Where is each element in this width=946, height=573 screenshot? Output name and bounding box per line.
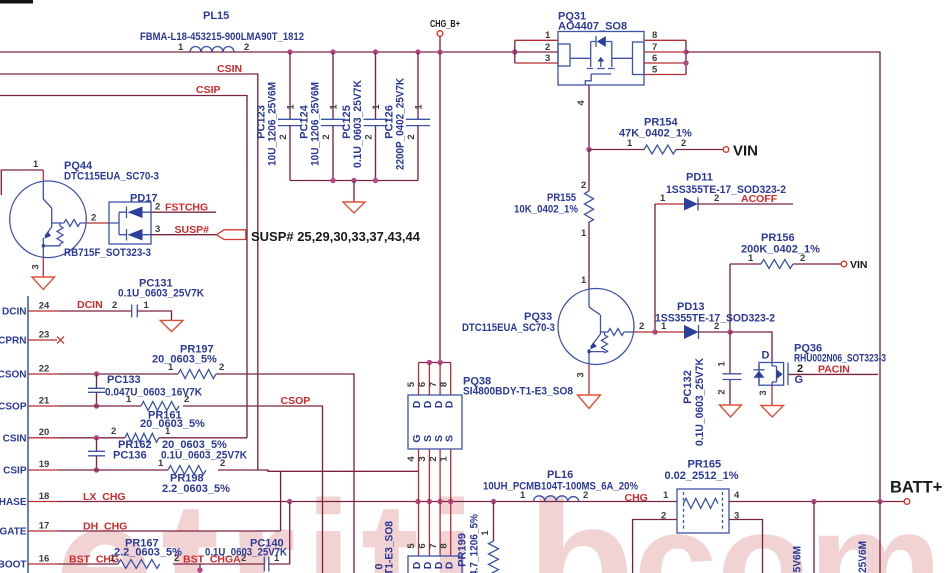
svg-text:CSIP: CSIP: [196, 84, 221, 96]
svg-text:2: 2: [278, 134, 289, 139]
node: junction at PR154: [586, 147, 591, 152]
svg-text:RB715F_SOT323-3: RB715F_SOT323-3: [64, 247, 151, 259]
svg-text:VIN: VIN: [733, 143, 758, 160]
watermark: [0, 475, 1, 477]
junction dots on top rail: [287, 49, 517, 54]
svg-text:1: 1: [329, 104, 340, 110]
svg-text:3: 3: [155, 224, 160, 235]
svg-text:6: 6: [417, 382, 428, 387]
IC body edge (left charger IC): [27, 296, 29, 573]
svg-text:CSIP: CSIP: [3, 466, 27, 477]
inductor PL16: [483, 469, 638, 502]
PQ38 pin names D D D D / G S S S: [411, 400, 456, 442]
svg-text:CHG_B+: CHG_B+: [430, 19, 460, 30]
junction dots on cap bottom rail: [330, 178, 335, 183]
svg-text:17: 17: [39, 521, 50, 532]
net FSTCHG: [151, 202, 216, 214]
ground (DCIN filter): [160, 320, 183, 331]
svg-text:PR156: PR156: [761, 232, 795, 244]
svg-text:2: 2: [219, 362, 224, 373]
net SUSP#: [151, 224, 217, 236]
capacitor (battery, clipped) left: [792, 502, 815, 573]
svg-text:1: 1: [274, 553, 280, 564]
svg-text:SUSP#: SUSP#: [175, 224, 210, 236]
capacitor PC140: [205, 502, 290, 572]
svg-text:10UH_PCMB104T-100MS_6A_20%: 10UH_PCMB104T-100MS_6A_20%: [483, 481, 638, 493]
svg-text:2: 2: [406, 134, 417, 139]
capacitor PC132: [682, 332, 742, 446]
capacitor PC124: [299, 52, 346, 181]
resistor PR162: [111, 426, 247, 451]
svg-text:1: 1: [168, 362, 174, 373]
wire CHG_B+ down to PQ38: [439, 52, 441, 363]
svg-text:1: 1: [520, 490, 526, 501]
svg-text:PD17: PD17: [130, 193, 158, 205]
svg-text:2: 2: [714, 321, 719, 332]
wire: PD11 anode down to PQ33 collector node: [654, 204, 656, 332]
svg-text:6: 6: [417, 543, 428, 548]
svg-text:20_0603_5%: 20_0603_5%: [152, 354, 217, 366]
svg-text:PC132: PC132: [682, 370, 694, 404]
svg-text:UGATE: UGATE: [0, 527, 27, 538]
svg-text:2200P_0402_25V7K: 2200P_0402_25V7K: [395, 78, 407, 170]
IC pin names: [0, 307, 27, 571]
svg-text:8: 8: [439, 382, 450, 387]
svg-text:1: 1: [661, 321, 667, 332]
svg-text:3: 3: [31, 264, 42, 269]
svg-text:D: D: [444, 561, 456, 569]
svg-text:1: 1: [165, 426, 171, 437]
svg-text:1: 1: [371, 104, 382, 110]
pin 21 CSOP row: [28, 405, 58, 407]
svg-text:0.1U_0603_25V7K: 0.1U_0603_25V7K: [161, 450, 247, 462]
svg-text:2: 2: [321, 134, 332, 139]
svg-text:2: 2: [639, 321, 644, 332]
svg-text:2: 2: [428, 456, 439, 461]
PQ38 bottom pin wires 4,3,2,1: [406, 449, 451, 502]
wire: PR156 to PD13 cathode node: [729, 264, 731, 332]
svg-text:2.2_0603_5%: 2.2_0603_5%: [162, 483, 230, 495]
svg-text:20_0603_5%: 20_0603_5%: [140, 418, 205, 430]
svg-text:0.1U_0603_25V7K: 0.1U_0603_25V7K: [118, 288, 204, 300]
svg-text:5: 5: [406, 543, 417, 549]
resistor PR156: [730, 232, 841, 269]
svg-text:2: 2: [220, 458, 225, 469]
svg-text:5: 5: [406, 381, 417, 387]
svg-text:7: 7: [652, 42, 657, 53]
node: stub at BST_CHGA: [197, 564, 202, 573]
wire: rail from PQ31 to right edge and down to BATT+: [686, 52, 880, 502]
PQ31 pin 4 wire down: [576, 85, 589, 150]
transistor PQ33 (DTC115EUA_SC70-3): [462, 289, 634, 365]
svg-text:1: 1: [660, 193, 666, 204]
svg-text:2: 2: [717, 389, 728, 394]
svg-text:DCIN: DCIN: [77, 299, 103, 311]
PR165 pin2 wire down: [633, 520, 677, 573]
wire: PQ31 left bracket: [514, 40, 516, 63]
svg-text:ACPRN: ACPRN: [0, 336, 27, 347]
IC pin numbers: [39, 301, 50, 565]
svg-text:1: 1: [158, 458, 164, 469]
svg-text:G: G: [795, 374, 804, 386]
svg-text:1: 1: [663, 490, 669, 501]
svg-text:7: 7: [428, 543, 439, 548]
svg-text:1: 1: [480, 530, 491, 536]
wire CSON to bottom: [216, 374, 354, 573]
svg-text:PACIN: PACIN: [818, 364, 850, 376]
wire CSIP row to PQ38 pin4: [218, 470, 419, 471]
svg-text:D: D: [444, 400, 456, 408]
svg-text:PC133: PC133: [107, 374, 141, 386]
svg-text:1: 1: [581, 275, 587, 286]
wires LX rail down to second FET: [419, 502, 451, 557]
PQ44 pin 3 to ground: [31, 257, 55, 289]
svg-text:ACOFF: ACOFF: [741, 193, 778, 205]
svg-text:2: 2: [364, 134, 375, 139]
svg-text:SUSP# 25,29,30,33,37,43,44: SUSP# 25,29,30,33,37,43,44: [251, 229, 421, 244]
svg-text:PR199: PR199: [457, 533, 469, 567]
capacitor PC123: [256, 52, 303, 181]
svg-text:2: 2: [91, 213, 96, 224]
svg-text:1: 1: [33, 159, 39, 170]
pin 19 CSIP row: [28, 469, 58, 471]
capacitor PC133: [88, 371, 202, 408]
transistor PQ36 (RHU002N06_SOT323-3): [754, 343, 887, 418]
svg-text:2: 2: [244, 42, 249, 53]
svg-text:2: 2: [111, 426, 116, 437]
svg-text:PC136: PC136: [113, 450, 147, 462]
svg-text:3: 3: [545, 53, 550, 64]
svg-text:8: 8: [652, 30, 657, 41]
svg-text:0.1U_0603_25V7K: 0.1U_0603_25V7K: [694, 358, 706, 446]
svg-text:10U_1206_25V6M: 10U_1206_25V6M: [310, 82, 322, 166]
node CHG_B+ terminal: [430, 19, 460, 52]
wire CSIN: left rail y=74 turning down at x=257.8 to row19: [0, 74, 258, 470]
diode PD11: [655, 172, 793, 211]
capacitor PC126: [384, 52, 431, 181]
transistor PQ38 (SI4800BDY SO8): [408, 376, 573, 450]
node BATT+ terminal: [890, 479, 942, 505]
svg-text:2: 2: [681, 138, 686, 149]
resistor PR165 (shunt): [661, 459, 740, 534]
wire: capacitor bottom rail: [290, 180, 418, 182]
svg-text:0.02_2512_1%: 0.02_2512_1%: [665, 470, 739, 482]
PR165 pin3 wire down: [729, 520, 763, 573]
svg-text:24: 24: [39, 301, 50, 312]
svg-text:T1-E3_SO8: T1-E3_SO8: [384, 521, 396, 573]
wire: BATT+ rail: [729, 501, 904, 503]
svg-text:5: 5: [652, 64, 658, 75]
ground (capacitor bank): [343, 181, 365, 214]
svg-text:2: 2: [581, 180, 586, 191]
svg-text:21: 21: [39, 396, 50, 407]
svg-text:DCIN: DCIN: [2, 307, 26, 318]
node VIN terminal: [723, 143, 758, 160]
svg-text:6: 6: [652, 53, 657, 64]
svg-text:DTC115EUA_SC70-3: DTC115EUA_SC70-3: [462, 322, 555, 334]
resistor PR155: [514, 150, 594, 289]
svg-text:10K_0402_1%: 10K_0402_1%: [514, 204, 578, 216]
wire: PQ31 right bracket: [685, 40, 687, 74]
pin 20 CSIN row: [28, 437, 58, 439]
resistor PR197: [152, 344, 224, 379]
wire CSIP: left rail y=95.5 turning down at x=247 to row20: [0, 96, 247, 438]
node: junction PQ33/PD11/PD13: [652, 329, 657, 334]
pin 24 DCIN row: [28, 299, 132, 311]
capacitor (battery, clipped) right: [857, 502, 880, 573]
diode PD13: [655, 301, 775, 339]
svg-text:1: 1: [439, 456, 450, 462]
svg-text:3: 3: [758, 390, 769, 395]
capacitor PC125: [341, 52, 388, 181]
inductor PL15: [140, 10, 304, 53]
svg-text:CHG: CHG: [625, 492, 648, 504]
wire: node to PQ36 drain: [730, 332, 772, 363]
svg-text:1: 1: [748, 253, 754, 264]
svg-text:1: 1: [110, 553, 116, 564]
pin 17 UGATE row DH_CHG: [28, 471, 281, 532]
svg-text:PD13: PD13: [677, 301, 705, 313]
resistor PR161: [126, 394, 205, 430]
svg-text:2.2_0603_5%: 2.2_0603_5%: [114, 547, 182, 559]
svg-text:FBMA-L18-453215-900LMA90T_1812: FBMA-L18-453215-900LMA90T_1812: [140, 31, 304, 43]
svg-text:4: 4: [406, 456, 417, 462]
PQ33 pin 2 wire: [634, 331, 655, 333]
svg-text:0.1U_0603_25V7K: 0.1U_0603_25V7K: [352, 80, 364, 168]
resistor PR198: [158, 458, 230, 495]
svg-text:2: 2: [112, 300, 117, 311]
transistor PQ31 (AO4407_SO8): [558, 11, 644, 86]
svg-text:4: 4: [576, 100, 587, 106]
svg-text:1: 1: [126, 394, 132, 405]
capacitor PC131: [112, 278, 204, 321]
PQ38 top pin wires 5,6,7,8: [406, 363, 451, 396]
svg-text:16: 16: [39, 554, 50, 565]
svg-text:CSOP: CSOP: [281, 395, 311, 407]
svg-text:2: 2: [155, 202, 160, 213]
svg-text:VIN: VIN: [850, 259, 868, 271]
top-left black bar: [0, 0, 33, 4]
svg-text:PR165: PR165: [688, 459, 722, 471]
svg-text:1: 1: [286, 104, 297, 110]
svg-text:4.7_1206_5%: 4.7_1206_5%: [469, 514, 481, 573]
svg-text:PR155: PR155: [547, 192, 576, 204]
PQ31 right pin wires 8,7,6,5: [644, 40, 686, 74]
pin 23 no-connect: [28, 337, 64, 344]
svg-text:2: 2: [583, 490, 588, 501]
svg-text:CSOP: CSOP: [0, 402, 27, 413]
wire: PQ38 top pin tie: [419, 362, 451, 364]
junction dots on LX_CHG rail: [287, 499, 496, 504]
wire CSOP to bottom: [183, 406, 323, 573]
svg-text:PD11: PD11: [686, 172, 713, 184]
node: junction PD13/PR156/PC132: [727, 329, 732, 334]
transistor PQ40 (second SO8, clipped): [374, 521, 463, 573]
PQ33 pin 3 to ground: [576, 365, 601, 409]
svg-text:19: 19: [39, 459, 50, 470]
svg-text:LX_CHG: LX_CHG: [83, 491, 126, 503]
svg-text:20: 20: [39, 427, 50, 438]
SUSP# off-page callout: [217, 230, 246, 240]
svg-text:AO4407_SO8: AO4407_SO8: [558, 21, 627, 33]
resistor PR167: [110, 538, 264, 569]
svg-text:1: 1: [144, 300, 150, 311]
svg-text:CSON: CSON: [0, 370, 27, 381]
svg-text:2: 2: [545, 42, 550, 53]
svg-text:2: 2: [800, 253, 805, 264]
wire: main top rail CHG_B+ y=52: [0, 51, 558, 53]
svg-text:BATT+: BATT+: [890, 479, 942, 497]
node VIN terminal (small): [841, 259, 867, 271]
svg-text:10U_1206_25V6M: 10U_1206_25V6M: [792, 546, 804, 573]
svg-text:FSTCHG: FSTCHG: [165, 202, 208, 214]
svg-text:2: 2: [714, 193, 719, 204]
svg-text:S: S: [444, 435, 456, 442]
pin 18 PHASE row / LX_CHG rail: [28, 491, 677, 503]
svg-text:1: 1: [545, 30, 551, 41]
svg-text:DH_CHG: DH_CHG: [83, 521, 127, 533]
PQ31 pin 3 wire: [515, 62, 558, 64]
svg-text:D: D: [762, 350, 770, 362]
svg-text:CSIN: CSIN: [3, 433, 27, 444]
resistor PR154: [589, 117, 723, 155]
svg-text:1: 1: [414, 104, 425, 110]
svg-text:1: 1: [178, 42, 184, 53]
svg-text:7: 7: [428, 382, 439, 387]
svg-text:22: 22: [39, 364, 50, 375]
svg-text:SI4800BDY-T1-E3_SO8: SI4800BDY-T1-E3_SO8: [463, 386, 573, 398]
svg-text:CSIN: CSIN: [217, 63, 242, 75]
svg-text:18: 18: [39, 491, 50, 502]
svg-text:10U_1206_25V6M: 10U_1206_25V6M: [267, 82, 279, 166]
svg-text:2: 2: [241, 553, 246, 564]
svg-text:1: 1: [627, 138, 633, 149]
svg-text:4: 4: [734, 490, 740, 501]
svg-text:PHASE: PHASE: [0, 497, 27, 508]
capacitor PC136: [88, 435, 247, 473]
svg-text:PL16: PL16: [547, 469, 573, 481]
svg-text:3: 3: [576, 372, 587, 377]
PQ31 pin 1 wire: [515, 39, 558, 41]
svg-text:8: 8: [439, 543, 450, 548]
pin 22 CSON row: [28, 373, 58, 375]
PQ44 pin 2 wire: [86, 222, 109, 224]
transistor PQ44 (DTC115EUA_SC70-3): [1, 159, 159, 258]
svg-text:1: 1: [581, 228, 587, 239]
pin 16 BOOT row BST_CHG: [28, 554, 119, 566]
svg-text:2: 2: [184, 394, 189, 405]
svg-text:1: 1: [717, 361, 728, 367]
svg-text:23: 23: [39, 330, 50, 341]
svg-text:2: 2: [174, 553, 179, 564]
svg-text:10U_1206_25V6M: 10U_1206_25V6M: [857, 541, 869, 573]
svg-text:BOOT: BOOT: [0, 560, 27, 571]
diode pair PD17 (RB715F): [109, 193, 158, 245]
svg-text:3: 3: [417, 456, 428, 461]
svg-text:DTC115EUA_SC70-3: DTC115EUA_SC70-3: [64, 171, 159, 183]
resistor PR199 (clipped): [457, 502, 499, 573]
svg-text:PL15: PL15: [203, 10, 229, 22]
